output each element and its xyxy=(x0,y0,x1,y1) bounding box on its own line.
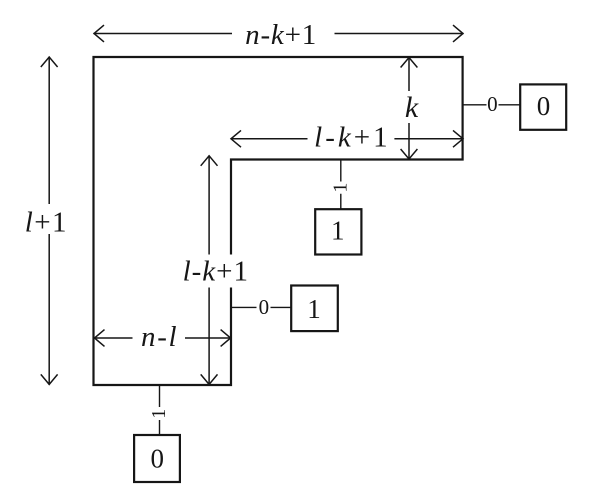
svg-text:l-k+1: l-k+1 xyxy=(183,256,249,288)
arrow l-k+1 (lower vertical double arrow) xyxy=(201,156,218,385)
svg-text:n-l: n-l xyxy=(141,321,178,353)
box 0 (top right) xyxy=(520,84,566,129)
svg-text:1: 1 xyxy=(331,216,345,246)
svg-text:l+1: l+1 xyxy=(25,206,68,238)
wire 1 (bottom, from bottom edge down to box 0) xyxy=(159,386,161,435)
svg-text:0: 0 xyxy=(537,91,551,121)
wire 0 (middle, from step edge to box 1) xyxy=(232,306,292,308)
box 1 (middle right) xyxy=(291,286,338,332)
arrow k (vertical double arrow in top band) xyxy=(401,58,418,160)
svg-text:k: k xyxy=(405,91,419,124)
svg-text:n-k+1: n-k+1 xyxy=(245,19,317,51)
box 1 (upper middle) xyxy=(315,209,361,254)
svg-text:0: 0 xyxy=(487,92,498,116)
svg-text:0: 0 xyxy=(151,444,165,474)
svg-text:1: 1 xyxy=(148,409,170,419)
svg-text:1: 1 xyxy=(307,294,321,324)
svg-text:l-k+1: l-k+1 xyxy=(314,122,390,154)
L-shaped region outline xyxy=(94,57,463,385)
wire 1 (upper middle, from band bottom edge down to box 1) xyxy=(340,160,342,209)
svg-text:1: 1 xyxy=(329,183,351,193)
wire 0 (top right, from right edge to box 0) xyxy=(463,104,520,106)
arrow n-k+1 (top horizontal double arrow) xyxy=(94,25,464,42)
arrow l+1 (left vertical double arrow) xyxy=(41,57,58,385)
box 0 (bottom) xyxy=(134,435,180,482)
arrow l-k+1 (upper horizontal double arrow) xyxy=(231,130,464,147)
arrow n-l (horizontal double arrow in lower block) xyxy=(94,330,231,347)
svg-text:0: 0 xyxy=(259,295,270,319)
